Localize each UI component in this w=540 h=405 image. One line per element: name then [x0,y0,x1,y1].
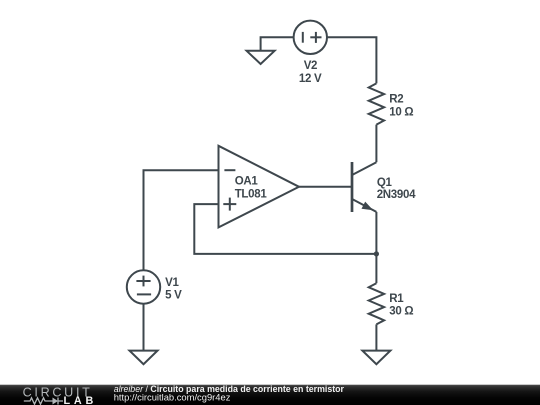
svg-text:10 Ω: 10 Ω [389,106,413,118]
wire V1 to ground [143,304,145,351]
wire Q1 emitter to node A [375,212,377,254]
svg-text:R1: R1 [389,293,404,305]
resistor R2 [369,83,384,124]
transistor Q1 [352,162,376,212]
footer bar [0,385,540,405]
footer attribution text [114,384,345,403]
svg-text:R2: R2 [389,94,403,106]
wire R1 to ground [375,324,377,350]
svg-text:5 V: 5 V [165,289,182,301]
ground (bottom left, at V1) [130,351,158,365]
label Q1 2N3904 [377,177,416,201]
op-amp OA1 [219,146,300,228]
ground (top, at V2) [247,51,275,64]
node A junction dot [374,251,379,256]
label V2 [299,60,322,85]
svg-text:http://circuitlab.com/cg9r4ez: http://circuitlab.com/cg9r4ez [114,392,231,403]
ground (bottom right, at R1) [362,351,390,365]
label R2 10 ohm [389,94,413,119]
svg-text:12 V: 12 V [299,73,322,85]
wire feedback node A to non-inverting input [194,204,376,254]
voltage source V1 [127,270,160,303]
label V1 5 V [165,277,182,302]
wire R2 to Q1 collector [375,125,377,163]
svg-text:2N3904: 2N3904 [377,189,416,201]
svg-text:V1: V1 [165,277,179,289]
svg-text:LAB: LAB [64,395,98,405]
wire node A to R1 [375,254,377,283]
wire inverting input to V1 [144,170,219,270]
label R1 30 ohm [389,293,413,318]
CircuitLab logo [23,385,97,405]
label OA1 TL081 [235,175,268,200]
svg-text:Q1: Q1 [377,177,393,189]
wire op-amp output to Q1 base [299,186,352,188]
wire V2 negative terminal to ground [261,37,294,51]
svg-text:OA1: OA1 [235,175,259,187]
svg-text:30 Ω: 30 Ω [389,305,413,317]
wire V2 positive terminal to R2 [327,37,376,83]
voltage source V2 [294,21,327,54]
svg-text:V2: V2 [304,60,317,72]
resistor R1 [369,283,384,324]
svg-text:TL081: TL081 [235,188,268,200]
